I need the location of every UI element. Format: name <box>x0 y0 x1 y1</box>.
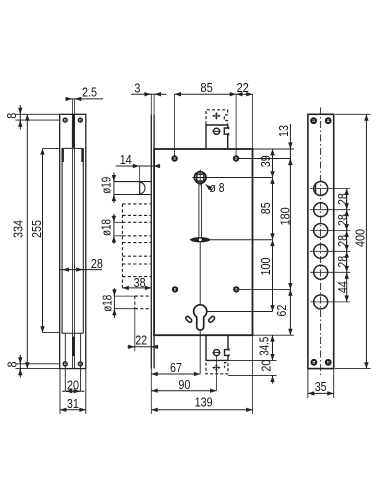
svg-text:34.5: 34.5 <box>257 337 272 356</box>
svg-text:31: 31 <box>67 396 79 411</box>
svg-text:28: 28 <box>335 235 350 247</box>
svg-text:334: 334 <box>11 220 26 238</box>
svg-text:35: 35 <box>315 379 327 394</box>
svg-text:20: 20 <box>258 360 273 372</box>
svg-text:85: 85 <box>258 202 273 214</box>
svg-text:ø19: ø19 <box>99 177 114 194</box>
svg-text:14: 14 <box>120 152 132 167</box>
svg-text:38: 38 <box>134 275 146 290</box>
svg-text:28: 28 <box>335 214 350 226</box>
svg-text:255: 255 <box>29 220 44 238</box>
svg-text:28: 28 <box>91 256 103 271</box>
svg-text:22: 22 <box>236 80 249 95</box>
svg-text:100: 100 <box>258 258 273 276</box>
svg-text:ø18: ø18 <box>99 219 114 236</box>
svg-text:44: 44 <box>335 281 350 293</box>
svg-text:28: 28 <box>335 256 350 268</box>
svg-text:39: 39 <box>258 155 273 167</box>
svg-text:28: 28 <box>335 193 350 205</box>
svg-text:22: 22 <box>135 332 147 347</box>
svg-text:2.5: 2.5 <box>82 85 97 100</box>
svg-text:8: 8 <box>4 113 19 119</box>
svg-text:20: 20 <box>67 378 79 393</box>
svg-text:ø18: ø18 <box>100 295 115 312</box>
svg-text:3: 3 <box>134 80 140 95</box>
svg-text:90: 90 <box>178 377 190 392</box>
svg-text:180: 180 <box>277 207 292 225</box>
svg-text:67: 67 <box>170 360 182 375</box>
svg-text:139: 139 <box>195 395 213 410</box>
svg-text:85: 85 <box>200 80 213 95</box>
svg-text:13: 13 <box>276 125 291 137</box>
svg-text:ø 8: ø 8 <box>210 180 225 195</box>
svg-text:62: 62 <box>274 305 289 317</box>
svg-text:8: 8 <box>5 362 20 368</box>
svg-text:400: 400 <box>352 229 367 247</box>
